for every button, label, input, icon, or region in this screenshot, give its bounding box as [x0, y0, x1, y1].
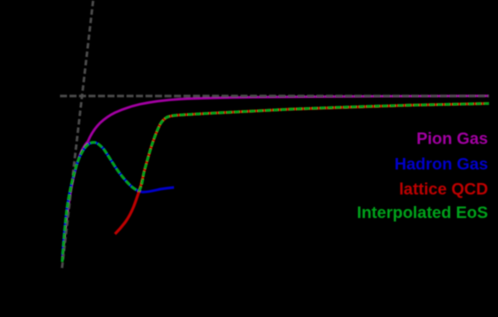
dashed asymptote line (horizontal): [60, 95, 489, 98]
dashed asymptote line (steep): [62, 0, 93, 268]
hadron gas curve (blue): [62, 142, 174, 256]
svg-text:Hadron Gas: Hadron Gas: [394, 155, 488, 173]
lattice QCD curve (red): [115, 104, 489, 235]
svg-text:lattice QCD: lattice QCD: [399, 181, 488, 199]
pion gas curve (magenta): [63, 96, 490, 260]
svg-text:Interpolated EoS: Interpolated EoS: [357, 204, 488, 222]
interpolated EoS curve (green dashed): [62, 104, 489, 263]
svg-text:Pion Gas: Pion Gas: [416, 130, 488, 148]
